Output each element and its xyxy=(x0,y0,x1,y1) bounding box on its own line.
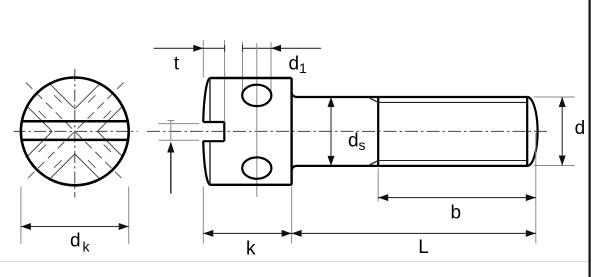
node centerlines xyxy=(14,69,138,198)
b extension lines xyxy=(378,133,536,244)
b dimension xyxy=(378,197,536,199)
svg-text:d: d xyxy=(70,231,81,252)
t extension lines xyxy=(203,40,224,122)
svg-text:s: s xyxy=(359,137,366,153)
d dimension xyxy=(561,97,563,166)
d extension lines xyxy=(534,97,575,166)
k dimension xyxy=(203,232,291,234)
wire hole centerline vertical xyxy=(256,43,258,197)
ds dimension xyxy=(330,97,332,166)
svg-text:d: d xyxy=(348,131,359,152)
thread runout chamfer xyxy=(368,97,378,166)
svg-text:d: d xyxy=(575,118,586,139)
hole top ellipse xyxy=(242,85,271,106)
slot lines end view xyxy=(22,121,128,140)
svg-text:L: L xyxy=(418,237,429,258)
wire diagonal centerlines xyxy=(26,83,124,181)
wire hidden hatch fragments xyxy=(39,95,111,168)
svg-text:k: k xyxy=(246,239,256,260)
d1 dimension xyxy=(243,47,322,49)
slot width pointer arrow xyxy=(170,152,172,194)
svg-text:1: 1 xyxy=(299,60,307,76)
wire cross-hole hidden-line chevrons xyxy=(27,84,122,179)
right page border xyxy=(588,0,590,277)
dk dimension xyxy=(21,226,129,228)
t dimension xyxy=(154,47,225,49)
head crown arc xyxy=(203,78,210,185)
head face line xyxy=(209,78,211,185)
svg-text:b: b xyxy=(451,203,462,224)
shank outline xyxy=(292,93,538,171)
d1 extension lines xyxy=(243,42,272,96)
head circle dk xyxy=(21,77,129,185)
faint rule xyxy=(0,261,590,263)
dk extension lines xyxy=(21,187,129,245)
hole bottom ellipse xyxy=(242,157,271,178)
head right face xyxy=(290,78,292,185)
head outline side view xyxy=(210,78,291,185)
wire slot projection lines xyxy=(159,124,200,141)
thread minor diameter lines xyxy=(378,102,527,160)
svg-text:d: d xyxy=(289,53,300,74)
k L extension lines xyxy=(203,187,291,244)
L dimension xyxy=(292,232,536,234)
svg-text:t: t xyxy=(174,54,180,75)
svg-text:k: k xyxy=(83,239,91,255)
wire axis centerline xyxy=(147,130,547,132)
slot notch side view xyxy=(203,122,224,141)
